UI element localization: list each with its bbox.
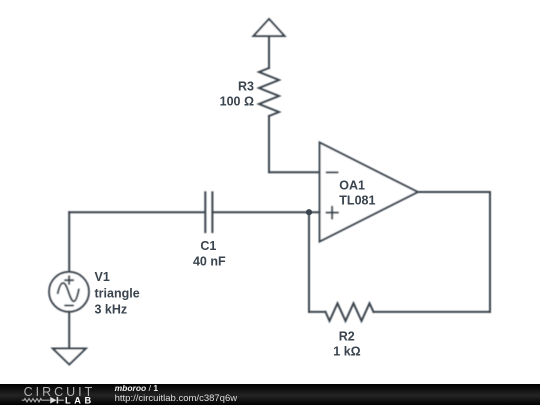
wire [68,212,70,272]
junction node at op-amp + input [306,209,312,215]
resistor R2 [326,303,374,321]
wire [308,212,310,312]
V1 sine glyph [58,283,79,301]
V1 plus mark [65,276,73,283]
wire [489,192,491,312]
wire [374,311,491,313]
op-amp non-inverting input pin (+) [327,207,338,219]
wire [69,211,204,213]
svg-text:C1: C1 [200,239,216,253]
op-amp OA1 [320,143,418,242]
op-amp inverting input pin (-) [327,171,338,173]
svg-text:40 nF: 40 nF [193,255,226,269]
wire [269,171,320,173]
svg-text:TL081: TL081 [339,194,375,208]
wire [309,311,326,313]
svg-text:3 kHz: 3 kHz [95,302,128,316]
wire [268,116,270,172]
svg-text:LAB: LAB [65,396,95,405]
CircuitLab logo wire with resistor and diode [22,399,64,402]
svg-text:triangle: triangle [95,286,140,300]
voltage source V1 [49,272,89,312]
svg-text:R3: R3 [238,80,254,94]
svg-text:http://circuitlab.com/c387q6w: http://circuitlab.com/c387q6w [115,393,238,404]
capacitor C1 [205,192,212,232]
wire [418,191,490,193]
svg-text:1 kΩ: 1 kΩ [333,345,360,359]
power supply VCC arrow [254,19,285,36]
svg-text:OA1: OA1 [339,178,365,192]
V1 minus mark [65,305,73,307]
wire [268,36,270,68]
svg-text:R2: R2 [339,330,355,344]
svg-text:100 Ω: 100 Ω [220,95,254,109]
svg-text:V1: V1 [95,270,110,284]
svg-text:mboroo / 1: mboroo / 1 [115,383,159,393]
bottom bar [0,384,540,405]
wire [213,211,319,213]
CircuitLab logo diode symbol [50,397,57,404]
wire [68,312,70,349]
resistor R3 [259,68,279,116]
ground [53,349,86,365]
